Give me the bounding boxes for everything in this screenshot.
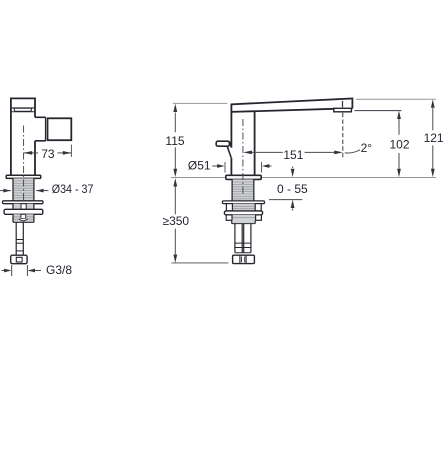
ring (front view) (224, 211, 262, 215)
handle lever (front view) (216, 141, 229, 146)
svg-text:0 - 55: 0 - 55 (277, 182, 308, 196)
dim 73 line + arrows (24, 152, 72, 154)
dim 0-55 arrows (292, 167, 294, 211)
centerline (left view) (23, 126, 25, 201)
threaded shank (front view) (232, 179, 254, 201)
svg-text:2°: 2° (361, 141, 373, 155)
dim 102 extension line (aerator) (355, 110, 402, 112)
mid section (left view) (13, 204, 34, 210)
dim 115 extension line (top) (173, 102, 228, 104)
threaded shank (left view) (13, 178, 34, 200)
aerator at spout tip (334, 108, 352, 112)
base flange / escutcheon (front view) (226, 175, 261, 179)
dim Ø51 extension ticks (225, 162, 262, 173)
supply hoses (front view) (235, 224, 251, 253)
svg-text:121: 121 (424, 131, 444, 145)
dim 121 line + arrows (432, 108, 434, 169)
hose joint band (front view) (234, 243, 251, 253)
locknut (left view) (4, 209, 43, 214)
shank end (front view) (232, 220, 256, 223)
spout stub neck (side view) (35, 117, 48, 141)
base flange (left view) (6, 175, 41, 178)
hose joint lines (left view) (16, 240, 23, 251)
tick at aerator centerline (342, 101, 344, 108)
supply hose (left view) (16, 222, 23, 255)
svg-text:73: 73 (41, 147, 55, 161)
2 deg leader arc (345, 150, 360, 153)
G3/8 connector nut (left view) (11, 255, 27, 264)
lower threads (left view) (13, 214, 34, 222)
svg-text:Ø51: Ø51 (188, 158, 211, 172)
deck line (171, 177, 436, 179)
dim 0-55 lower extension line (269, 199, 302, 201)
dim 121 extension line (spout top) (356, 98, 436, 100)
svg-text:102: 102 (389, 138, 409, 152)
dim 151 line + arrows (252, 151, 335, 153)
spout cylinder (side view) (48, 118, 72, 140)
dim 102 line + arrows (398, 119, 400, 169)
svg-text:≥350: ≥350 (162, 214, 189, 228)
locknut section (front view) (226, 204, 261, 211)
dashed flow centerline (342, 113, 344, 158)
svg-text:G3/8: G3/8 (46, 263, 72, 277)
dim G3/8 line + arrows (2, 265, 42, 276)
dim Ø51 arrows (212, 165, 271, 167)
dim 73 extension line (70, 145, 72, 157)
faucet body (side view) (11, 98, 35, 175)
svg-text:151: 151 (283, 148, 303, 162)
dim 115 line + arrows (174, 113, 176, 169)
washer (left view) (3, 201, 44, 204)
hose connector nuts (front view) (233, 255, 255, 263)
dim >=350 line + arrows (174, 187, 176, 255)
second nut section (front view) (226, 215, 261, 220)
dim Ø34-37 arrows (0, 190, 49, 192)
svg-text:Ø34 - 37: Ø34 - 37 (52, 182, 94, 196)
>=350 bottom extension line (172, 262, 229, 264)
washer (front view) (222, 201, 264, 204)
svg-text:115: 115 (165, 134, 184, 148)
body trim band (11, 108, 35, 112)
column centerline (front view) (242, 119, 244, 196)
faucet column + spout (front view) (231, 99, 352, 176)
